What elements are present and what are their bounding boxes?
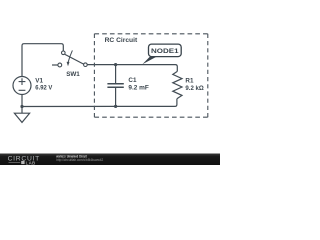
svg-text:9.2 mF: 9.2 mF <box>128 85 149 92</box>
wire <box>21 95 23 107</box>
wire (bottom rail) <box>22 99 177 107</box>
ground <box>14 107 29 123</box>
node NODE1 callout <box>142 56 157 64</box>
node (junction top, C1) <box>114 63 117 66</box>
svg-text:V1: V1 <box>35 77 43 84</box>
svg-text:NODE1: NODE1 <box>151 48 179 55</box>
svg-text:6.92 V: 6.92 V <box>35 84 53 91</box>
switch SW1 <box>52 50 87 67</box>
wire (top rail from switch to R1) <box>87 65 177 72</box>
capacitor C1 <box>107 65 123 107</box>
RC Circuit dashed box <box>94 34 207 117</box>
svg-text:C1: C1 <box>128 77 137 84</box>
node (junction at V1 bottom) <box>20 105 23 108</box>
voltage source V1 <box>13 77 31 95</box>
node (junction bottom, C1) <box>114 105 117 108</box>
svg-text:9.2 kΩ: 9.2 kΩ <box>185 85 203 92</box>
svg-text:R1: R1 <box>185 78 194 85</box>
footer bar <box>0 154 220 166</box>
svg-text:SW1: SW1 <box>66 71 80 78</box>
svg-text:http://circuitlab.com/c/b8t4ku: http://circuitlab.com/c/b8t4kuww42 <box>56 158 103 162</box>
svg-text:LAB: LAB <box>26 160 36 165</box>
svg-text:RC Circuit: RC Circuit <box>105 37 138 44</box>
resistor R1 <box>173 71 182 98</box>
wire <box>22 44 63 77</box>
